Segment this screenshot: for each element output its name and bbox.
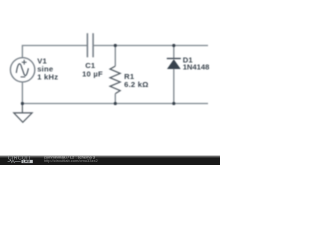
svg-text:10 µF: 10 µF: [82, 69, 103, 78]
resistor R1: [110, 46, 120, 104]
capacitor C1: [87, 33, 93, 57]
wire V1 bottom to ground node: [21, 82, 23, 104]
node D junction dot (D1 bottom): [172, 102, 175, 105]
ground node junction dot: [21, 102, 24, 105]
wire top-left from V1 top to C1 left plate: [22, 46, 87, 58]
svg-text:1N4148: 1N4148: [183, 62, 210, 71]
node C junction dot (R1 bottom): [114, 102, 117, 105]
svg-text:http://circuitlab.com/cmu33zx2: http://circuitlab.com/cmu33zx2: [44, 158, 99, 163]
node A junction dot: [114, 44, 117, 47]
ground: [14, 104, 32, 123]
svg-text:6.2 kΩ: 6.2 kΩ: [124, 80, 148, 89]
diode D1: [167, 46, 181, 104]
footer CircuitLab logo: [8, 156, 33, 164]
wire node A to node B: [115, 45, 174, 47]
svg-text:LAB: LAB: [23, 160, 31, 164]
wire C1 right plate to node A: [93, 45, 115, 47]
node B junction dot: [172, 44, 175, 47]
svg-text:1 kHz: 1 kHz: [37, 72, 58, 81]
voltage source V1: [10, 58, 34, 82]
wire node B to right stub end: [174, 45, 208, 47]
bottom rail wire: [22, 103, 208, 105]
